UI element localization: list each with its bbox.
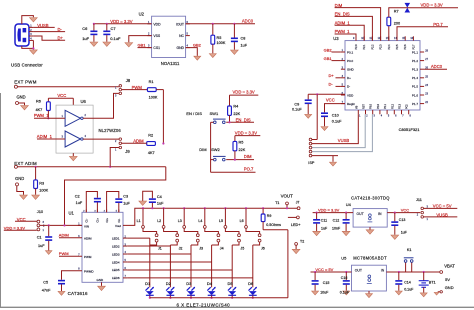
svg-text:P1.5: P1.5 <box>412 85 419 89</box>
svg-text:25: 25 <box>425 75 428 78</box>
svg-text:BT1: BT1 <box>429 281 436 285</box>
svg-text:100K: 100K <box>149 96 158 100</box>
svg-text:ADC0: ADC0 <box>431 64 443 69</box>
svg-text:P1.3: P1.3 <box>412 68 419 72</box>
svg-text:1: 1 <box>427 218 429 221</box>
svg-text:VCC: VCC <box>57 93 66 98</box>
svg-text:SW1: SW1 <box>210 111 219 116</box>
svg-text:GB1: GB1 <box>138 43 147 48</box>
svg-text:C12: C12 <box>333 219 340 223</box>
svg-text:GB2: GB2 <box>193 43 202 48</box>
svg-text:K1: K1 <box>407 248 412 252</box>
svg-text:VDD = 3.3V: VDD = 3.3V <box>235 131 257 136</box>
svg-text:GND: GND <box>17 94 26 99</box>
svg-text:P2.4: P2.4 <box>388 44 391 50</box>
svg-text:0.5Ohms: 0.5Ohms <box>266 223 281 227</box>
svg-text:R6: R6 <box>36 100 41 104</box>
svg-text:2: 2 <box>366 115 368 118</box>
svg-text:C8051F321: C8051F321 <box>399 127 421 132</box>
svg-text:J2: J2 <box>179 247 183 251</box>
svg-text:1: 1 <box>359 115 361 118</box>
svg-text:GB2: GB2 <box>324 47 333 52</box>
svg-text:VDD = 3.3V: VDD = 3.3V <box>110 19 132 24</box>
svg-text:4K7: 4K7 <box>36 108 43 112</box>
svg-text:GND: GND <box>445 285 454 290</box>
svg-text:IN: IN <box>378 212 382 216</box>
svg-text:C1-: C1- <box>86 218 89 222</box>
svg-text:C10: C10 <box>332 114 339 118</box>
svg-text:10nF: 10nF <box>332 226 341 230</box>
svg-text:GB1: GB1 <box>324 56 333 61</box>
svg-text:L3: L3 <box>178 219 182 223</box>
svg-text:L5: L5 <box>219 219 223 223</box>
svg-text:U4: U4 <box>346 202 352 207</box>
svg-text:OUT: OUT <box>357 212 364 216</box>
svg-text:EN / DIS: EN / DIS <box>186 111 202 116</box>
svg-text:EXT ADIM: EXT ADIM <box>14 161 37 166</box>
svg-text:ADIM_1: ADIM_1 <box>37 134 53 139</box>
svg-text:C16: C16 <box>341 276 348 280</box>
svg-text:3: 3 <box>62 136 64 139</box>
svg-text:D-: D- <box>347 85 350 89</box>
svg-text:C6: C6 <box>82 26 88 31</box>
svg-text:T1: T1 <box>275 201 279 205</box>
svg-text:24: 24 <box>425 84 428 87</box>
svg-text:3: 3 <box>115 94 117 97</box>
svg-text:R4: R4 <box>233 104 238 108</box>
svg-text:1uF: 1uF <box>38 244 45 248</box>
svg-text:PWM: PWM <box>59 251 69 256</box>
svg-text:LED3: LED3 <box>112 252 120 256</box>
svg-text:OUT: OUT <box>355 268 362 272</box>
svg-text:D+: D+ <box>347 76 351 80</box>
svg-text:P1.1: P1.1 <box>412 50 419 54</box>
svg-text:P2.0: P2.0 <box>377 103 380 109</box>
svg-text:D+: D+ <box>58 36 64 41</box>
svg-text:P2.1: P2.1 <box>384 103 387 109</box>
svg-text:U1: U1 <box>69 211 75 216</box>
svg-text:PC2: PC2 <box>406 104 409 109</box>
svg-text:DIM: DIM <box>244 154 252 159</box>
svg-text:3: 3 <box>374 115 376 118</box>
svg-text:C3: C3 <box>123 194 128 198</box>
svg-text:DIM: DIM <box>335 3 343 8</box>
svg-text:C1+: C1+ <box>97 217 100 222</box>
svg-text:0.1uF: 0.1uF <box>332 119 342 123</box>
svg-text:P2.3: P2.3 <box>380 44 383 50</box>
svg-text:R5: R5 <box>239 141 244 145</box>
svg-text:NC: NC <box>179 34 184 38</box>
svg-text:LED+: LED+ <box>291 223 301 227</box>
svg-text:VDD: VDD <box>347 93 354 97</box>
svg-text:10uF: 10uF <box>320 291 329 295</box>
svg-text:1uF: 1uF <box>401 231 408 235</box>
svg-text:6 X ELE7-21UWC/S40: 6 X ELE7-21UWC/S40 <box>177 303 231 308</box>
svg-text:GND: GND <box>15 176 24 181</box>
svg-text:Vout: Vout <box>115 224 121 228</box>
svg-text:PWM_1: PWM_1 <box>335 29 351 34</box>
svg-text:3: 3 <box>43 221 45 224</box>
svg-text:MC78M05ABDT: MC78M05ABDT <box>353 255 387 260</box>
svg-text:1: 1 <box>62 115 64 118</box>
svg-text:9: 9 <box>353 37 355 40</box>
svg-text:J6: J6 <box>261 247 265 251</box>
svg-text:D5: D5 <box>228 281 234 286</box>
svg-text:D4: D4 <box>207 281 213 286</box>
svg-text:EN_DIS: EN_DIS <box>236 117 251 122</box>
svg-text:U5: U5 <box>341 256 347 261</box>
svg-text:LED1: LED1 <box>112 236 120 240</box>
svg-text:VDD = 3.3V: VDD = 3.3V <box>421 2 443 7</box>
svg-text:J11: J11 <box>416 198 422 202</box>
svg-text:C13: C13 <box>399 218 406 222</box>
svg-text:1uF: 1uF <box>123 201 130 205</box>
svg-text:C8: C8 <box>241 37 246 41</box>
svg-text:C4: C4 <box>157 195 162 199</box>
svg-text:T2: T2 <box>300 239 304 243</box>
svg-text:VSS: VSS <box>153 34 161 38</box>
svg-text:ISP: ISP <box>308 161 315 165</box>
svg-text:P1.4: P1.4 <box>412 76 419 80</box>
svg-text:EN_DIS: EN_DIS <box>335 12 350 17</box>
svg-text:LED4: LED4 <box>112 260 120 264</box>
svg-text:ADC0: ADC0 <box>242 19 254 24</box>
svg-text:P2.2: P2.2 <box>391 103 394 109</box>
svg-text:L2: L2 <box>157 219 161 223</box>
svg-text:VDD: VDD <box>153 22 161 26</box>
svg-text:PO.7: PO.7 <box>433 22 443 27</box>
svg-text:P1.6: P1.6 <box>412 93 419 97</box>
svg-text:PWM_1: PWM_1 <box>34 113 50 118</box>
svg-text:P3.0: P3.0 <box>370 103 373 109</box>
svg-text:VDD = 3.3V: VDD = 3.3V <box>233 90 255 95</box>
svg-text:1uF: 1uF <box>241 44 248 48</box>
svg-text:J4: J4 <box>220 247 224 251</box>
svg-text:PO.7: PO.7 <box>244 166 254 171</box>
svg-text:4K7: 4K7 <box>148 151 155 155</box>
svg-text:P2.6: P2.6 <box>404 44 407 50</box>
svg-text:C2-: C2- <box>118 218 121 222</box>
svg-text:7: 7 <box>402 115 404 118</box>
svg-text:ADIM: ADIM <box>59 233 69 238</box>
svg-text:1uF: 1uF <box>82 36 89 41</box>
svg-text:CAT3616: CAT3616 <box>68 291 88 296</box>
svg-text:VUSB: VUSB <box>37 23 49 28</box>
svg-text:R5: R5 <box>217 36 222 40</box>
svg-text:J3: J3 <box>199 247 203 251</box>
svg-text:R7: R7 <box>394 10 399 14</box>
svg-text:1uF: 1uF <box>76 201 83 205</box>
svg-text:C15: C15 <box>323 281 330 285</box>
svg-text:P2.7: P2.7 <box>412 44 415 50</box>
svg-text:1uF: 1uF <box>157 202 164 206</box>
svg-text:VDD = 3.3V: VDD = 3.3V <box>318 208 340 213</box>
svg-text:P0.1: P0.1 <box>347 50 354 54</box>
svg-text:P0.0: P0.0 <box>347 59 354 63</box>
svg-text:NOA1311: NOA1311 <box>161 61 180 66</box>
svg-text:RegIn: RegIn <box>347 102 355 106</box>
svg-text:4: 4 <box>381 115 383 118</box>
svg-text:LED5: LED5 <box>112 268 120 272</box>
svg-text:1: 1 <box>43 229 45 232</box>
svg-text:L1: L1 <box>137 219 141 223</box>
svg-text:C9: C9 <box>294 102 299 106</box>
svg-text:200: 200 <box>394 22 400 26</box>
svg-text:DIM: DIM <box>199 147 206 152</box>
svg-text:CAT4218-300TDQ: CAT4218-300TDQ <box>351 196 390 201</box>
svg-text:R3: R3 <box>39 181 44 185</box>
svg-text:6: 6 <box>395 115 397 118</box>
svg-text:VIN: VIN <box>84 224 89 228</box>
svg-text:EXT PWM: EXT PWM <box>14 79 37 84</box>
svg-text:IOUT: IOUT <box>176 22 184 26</box>
svg-text:GND: GND <box>347 68 355 72</box>
svg-text:C5: C5 <box>43 280 48 284</box>
svg-text:LED2: LED2 <box>112 244 120 248</box>
svg-text:D+: D+ <box>329 73 335 78</box>
svg-text:C2+: C2+ <box>106 217 109 222</box>
svg-text:J9: J9 <box>125 149 130 154</box>
svg-text:ADIM: ADIM <box>84 237 92 241</box>
svg-text:1: 1 <box>115 149 117 152</box>
svg-text:U3: U3 <box>333 36 339 41</box>
svg-text:D-: D- <box>329 82 334 87</box>
svg-text:P2.0: P2.0 <box>355 44 358 50</box>
svg-text:ADIM: ADIM <box>133 138 144 143</box>
svg-text:C11: C11 <box>321 219 327 223</box>
svg-text:D2: D2 <box>166 281 172 286</box>
svg-text:IN: IN <box>381 268 385 272</box>
svg-text:PWM: PWM <box>84 255 92 259</box>
svg-text:22K: 22K <box>239 148 246 152</box>
svg-text:C14: C14 <box>404 281 411 285</box>
svg-text:23: 23 <box>425 93 428 96</box>
svg-text:5V: 5V <box>445 277 450 282</box>
svg-text:R2: R2 <box>148 134 153 138</box>
svg-text:J8: J8 <box>126 78 131 83</box>
svg-text:0.1uF: 0.1uF <box>404 288 414 292</box>
svg-text:47nF: 47nF <box>42 288 51 292</box>
svg-text:VOUT: VOUT <box>281 193 294 198</box>
svg-text:P2.3: P2.3 <box>399 103 402 109</box>
svg-text:0.1uF: 0.1uF <box>110 36 121 41</box>
svg-text:P2.5: P2.5 <box>396 44 399 50</box>
svg-text:D6: D6 <box>248 281 254 286</box>
svg-text:PWMD: PWMD <box>84 270 94 274</box>
svg-text:J10: J10 <box>37 209 44 214</box>
svg-text:USB Connector: USB Connector <box>11 62 43 67</box>
svg-text:L6: L6 <box>240 219 244 223</box>
svg-text:J7: J7 <box>296 201 300 205</box>
svg-text:5: 5 <box>388 115 390 118</box>
svg-text:R9: R9 <box>267 214 272 218</box>
svg-text:VUSB: VUSB <box>436 212 448 217</box>
svg-text:NL27WZ06: NL27WZ06 <box>99 128 122 133</box>
svg-text:4: 4 <box>85 135 87 138</box>
svg-text:2: 2 <box>417 214 419 217</box>
svg-text:2: 2 <box>115 140 117 143</box>
svg-text:VDD = 3.3V: VDD = 3.3V <box>4 225 26 230</box>
svg-text:RST: RST <box>363 104 366 109</box>
svg-text:C2: C2 <box>75 195 80 199</box>
svg-text:U2: U2 <box>139 11 145 16</box>
svg-text:VUSB: VUSB <box>338 138 350 143</box>
svg-text:8: 8 <box>410 115 412 118</box>
svg-text:VBAT: VBAT <box>444 263 455 268</box>
svg-text:J1: J1 <box>158 247 162 251</box>
svg-text:D1: D1 <box>145 281 151 286</box>
svg-text:0.1uF: 0.1uF <box>292 107 302 111</box>
svg-text:CS1: CS1 <box>153 46 160 50</box>
svg-text:VCC = 5V: VCC = 5V <box>433 204 452 209</box>
svg-text:D3: D3 <box>186 281 192 286</box>
svg-text:L4: L4 <box>198 219 202 223</box>
svg-text:28: 28 <box>425 50 428 53</box>
svg-text:0.1uF: 0.1uF <box>340 291 350 295</box>
svg-text:SW2: SW2 <box>211 147 220 152</box>
svg-text:VCC = 5V: VCC = 5V <box>315 267 333 272</box>
svg-text:P1.7: P1.7 <box>412 102 419 106</box>
svg-text:C7: C7 <box>111 26 117 31</box>
svg-text:ADIM_1: ADIM_1 <box>335 20 351 25</box>
svg-text:P2.1: P2.1 <box>363 44 366 50</box>
svg-text:100K: 100K <box>39 189 48 193</box>
svg-text:P2.2: P2.2 <box>371 44 374 50</box>
svg-text:VCC: VCC <box>401 207 410 212</box>
svg-text:22: 22 <box>425 101 428 104</box>
svg-text:J5: J5 <box>240 247 244 251</box>
svg-text:VCC: VCC <box>326 97 335 102</box>
svg-text:U6: U6 <box>81 99 87 104</box>
svg-text:P1.2: P1.2 <box>412 59 419 63</box>
svg-text:VB: VB <box>355 105 358 109</box>
svg-text:GND: GND <box>176 46 184 50</box>
svg-text:R1: R1 <box>149 80 154 84</box>
svg-text:100K: 100K <box>217 41 226 45</box>
svg-text:LED6: LED6 <box>112 276 120 280</box>
svg-text:D-: D- <box>58 27 63 32</box>
svg-text:1uF: 1uF <box>321 226 328 230</box>
svg-text:27: 27 <box>425 58 428 61</box>
svg-text:C1: C1 <box>37 235 42 239</box>
svg-text:GND: GND <box>97 278 105 282</box>
svg-text:2: 2 <box>85 114 87 117</box>
svg-text:22K: 22K <box>233 112 240 116</box>
